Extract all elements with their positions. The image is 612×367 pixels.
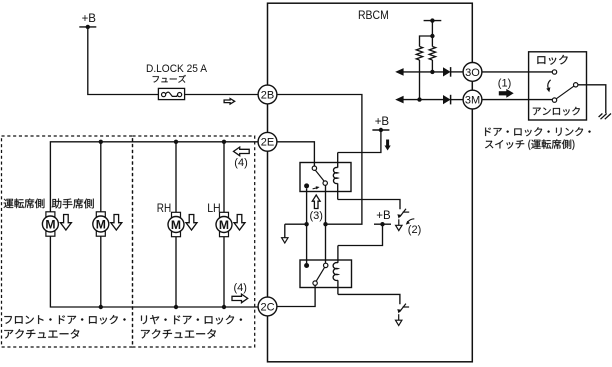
link switch: lock contact: [552, 70, 556, 74]
junction bottom bus / motor2: [99, 305, 103, 309]
svg-text:+B: +B: [376, 210, 391, 222]
relay unlock: contact circle (NO): [324, 263, 328, 267]
junction top bus / RH motor: [174, 140, 178, 144]
svg-text:(2): (2): [408, 224, 421, 236]
diode D (3O input): [443, 67, 451, 77]
motor M driver-side door lock actuator: [42, 212, 58, 236]
svg-text:M: M: [96, 217, 106, 231]
power +B (relay unlock coil supply): [374, 210, 391, 226]
relay lock: movable lever: [315, 170, 324, 181]
relay lock: rest-position arrow: [313, 186, 320, 189]
label アクチュエータ (front): [4, 329, 79, 339]
signal arrow left (3M line): [395, 96, 403, 104]
wire diode to 3M pin: [451, 99, 463, 101]
link switch: lever (unlock position): [556, 86, 573, 99]
wire diode to 3O pin: [451, 71, 463, 73]
resistor R (pull-up to 3O): [429, 47, 435, 61]
svg-text:(1): (1): [498, 77, 511, 89]
motor M RH rear door lock actuator: [168, 212, 184, 236]
relay unlock: movable lever: [316, 267, 324, 281]
svg-text:RBCM: RBCM: [358, 9, 389, 22]
wire coil bottom lead (relay unlock): [337, 280, 339, 294]
svg-text:2B: 2B: [261, 89, 274, 101]
svg-text:(3): (3): [310, 210, 323, 222]
wire relay unlock lever to 2C: [277, 285, 315, 306]
RBCM module box: [268, 3, 473, 362]
label ドア・ロック・リンク・: [485, 127, 591, 136]
wire coil bottom lead: [337, 183, 339, 199]
resistor R (pull-up to 3M): [416, 47, 422, 61]
reference arrow (4) left near 2E: [234, 147, 250, 156]
junction bottom bus / LH motor: [222, 305, 226, 309]
wire left resistor to 3M line: [419, 60, 421, 100]
wire RH motor bottom: [175, 237, 177, 307]
svg-text:2E: 2E: [261, 137, 274, 149]
wire power rail down: [431, 21, 433, 36]
svg-text:M: M: [45, 217, 55, 231]
diode D (3M input): [443, 95, 451, 105]
wire to left resistor: [420, 36, 433, 47]
svg-text:(4): (4): [234, 157, 247, 169]
wire 3O sense line: [398, 71, 443, 73]
junction on 3O line: [430, 70, 434, 74]
label アンロック (unlock): [533, 107, 580, 116]
junction on 3M line: [417, 97, 421, 101]
svg-text:M: M: [171, 218, 181, 232]
svg-text:M: M: [219, 218, 229, 232]
svg-text:3O: 3O: [465, 67, 480, 79]
relay unlock: common terminal: [304, 263, 309, 268]
wire right resistor to 3O line: [431, 60, 433, 72]
relay (unlock) box: [300, 260, 352, 288]
svg-text:(4): (4): [234, 282, 247, 294]
wire coil top lead (relay unlock): [337, 246, 339, 263]
reference arrow (3) up: [312, 195, 320, 209]
label スイッチ (運転席側): [485, 139, 574, 150]
wire +B to relay unlock coil: [338, 224, 383, 245]
junction resistor split: [430, 34, 434, 38]
connector pin 2C: [258, 297, 277, 316]
wire actuator top bus from 2E: [50, 142, 258, 212]
connector pin 2B: [258, 85, 277, 104]
wire +B to relay lock coil: [338, 130, 381, 153]
reference arrow (4) right near 2C: [232, 294, 248, 303]
label リヤ・ドア・ロック・: [141, 315, 242, 324]
label アクチュエータ (rear): [141, 329, 216, 339]
svg-text:LH: LH: [207, 201, 221, 215]
door lock link switch box: [529, 52, 587, 120]
relay lock: common terminal: [304, 183, 309, 188]
wire ground branch down: [284, 224, 286, 238]
wire 3O to lock contact: [482, 71, 552, 73]
wire 2B feed to relay commons: [277, 95, 362, 225]
wire +B to fuse: [88, 27, 159, 95]
link switch: unlock contact: [552, 98, 556, 102]
unlock direction arrow (driver motor): [60, 215, 71, 231]
label 運転席側 (driver side): [4, 199, 45, 209]
flow arrow right (fuse feed): [224, 99, 235, 105]
wire relay lock coil to key-cylinder switch: [338, 200, 400, 210]
wire to LH motor top: [223, 142, 225, 213]
wire motor2 bottom: [100, 236, 102, 307]
motor M passenger-side door lock actuator: [93, 212, 109, 236]
wire 3M to unlock contact: [482, 99, 552, 101]
wire contact bus relay1-relay2: [325, 185, 327, 263]
signal arrow left (3O line): [395, 68, 403, 76]
unlock direction arrow (RH motor): [186, 215, 197, 231]
wire relay unlock coil to key-cylinder switch: [338, 294, 400, 304]
connector pin 3O: [463, 63, 482, 82]
junction bottom bus / RH motor: [174, 305, 178, 309]
junction 2B feed / contact bus: [323, 222, 327, 226]
fuse D.LOCK 25A: [158, 88, 184, 99]
wire to motor2 top: [100, 142, 102, 212]
ground continuation arrow: [282, 238, 288, 243]
power +B (relay lock coil supply): [372, 116, 389, 132]
wire to RH motor top: [175, 142, 177, 213]
svg-text:RH: RH: [157, 201, 171, 215]
wire relay commons bus: [306, 188, 308, 263]
connector pin 2E: [258, 132, 277, 151]
junction top bus / LH motor: [222, 140, 226, 144]
label フューズ (fuse): [153, 75, 186, 83]
power rail bar (internal B+): [424, 20, 442, 22]
rear door lock actuator dashed box: [133, 136, 255, 347]
switch (key cylinder) contact upper: [396, 209, 410, 231]
unlock direction arrow (LH motor): [234, 215, 245, 231]
wire actuator bottom bus to 2C: [50, 236, 258, 307]
switch (key cylinder) contact lower: [396, 304, 410, 326]
relay lock: coil: [333, 167, 337, 183]
relay lock: contact circle (NC): [323, 181, 327, 185]
front door lock actuator dashed box: [2, 136, 133, 347]
motor M LH rear door lock actuator: [216, 212, 232, 236]
junction power rail: [430, 18, 434, 22]
signal arrow right (1): [499, 89, 514, 98]
label 助手席側 (passenger side): [52, 198, 94, 208]
wire link switch common to ground: [578, 85, 606, 114]
relay lock: contact circle (NO): [312, 166, 316, 170]
svg-text:D.LOCK 25 A: D.LOCK 25 A: [146, 63, 207, 75]
link switch: common contact: [574, 83, 578, 87]
wire fuse to 2B: [185, 94, 259, 96]
relay (lock) box: [300, 163, 351, 192]
junction commons bus / ground branch: [304, 222, 308, 226]
power +B (battery) top-left: [79, 13, 96, 29]
label フロント・ドア・ロック・: [4, 315, 125, 324]
wire 3M sense line: [398, 99, 443, 101]
svg-text:3M: 3M: [465, 95, 480, 107]
relay unlock: coil: [333, 263, 338, 281]
svg-text:2C: 2C: [260, 301, 274, 313]
label ロック (lock): [537, 55, 567, 65]
flow arrow down (+B coil feed): [385, 140, 391, 151]
unlock direction arrow (passenger motor): [111, 215, 122, 231]
wire coil top lead: [337, 153, 339, 168]
junction top bus / motor2: [99, 140, 103, 144]
svg-text:+B: +B: [82, 13, 97, 25]
wire 2E to relay1 contact: [277, 142, 315, 166]
wire to right resistor: [431, 36, 433, 47]
relay unlock: contact circle (NC): [313, 281, 317, 285]
link switch: actuation curved arrow: [546, 80, 550, 93]
wire ground branch: [285, 223, 307, 225]
wire LH motor bottom: [223, 237, 225, 307]
chassis ground: [599, 114, 611, 120]
actuation curved arrow (2): [406, 219, 415, 225]
connector pin 3M: [463, 90, 482, 109]
svg-text:+B: +B: [375, 116, 390, 128]
